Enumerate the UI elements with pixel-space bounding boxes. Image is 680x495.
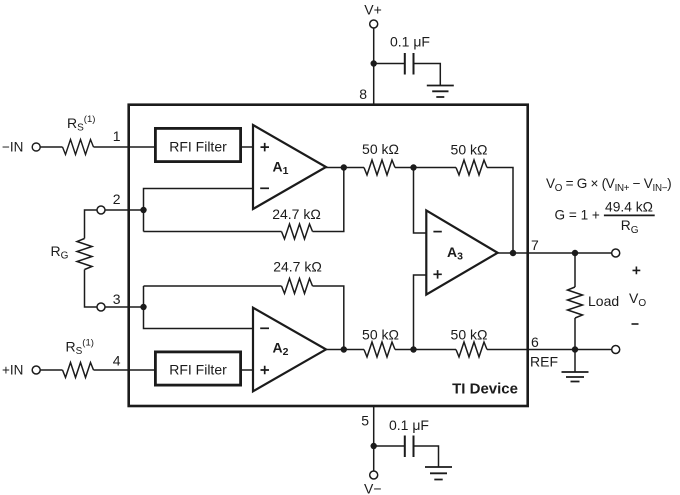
svg-text:+IN: +IN: [2, 363, 23, 378]
op-amp A3: [426, 210, 497, 294]
junction V+ cap: [371, 60, 377, 66]
A1 minus sign: [260, 187, 269, 189]
node A1 out: [341, 164, 347, 170]
svg-text:RFI Filter: RFI Filter: [169, 362, 227, 378]
wire to bottom mid node: [395, 349, 456, 351]
equation fraction bar: [604, 214, 655, 216]
resistor RS2 (Rs bottom): [63, 363, 94, 378]
wire C1 to ground: [414, 64, 441, 86]
node A2 out: [341, 346, 347, 352]
wire A3 plus branch: [414, 275, 427, 350]
terminal VO- / REF: [612, 346, 620, 354]
wire 50k top-right to A3 out column: [487, 168, 513, 254]
A1 plus sign: [261, 143, 270, 152]
wire A1 output to node: [326, 167, 344, 169]
wire V- to C2: [374, 445, 405, 447]
TI Device box U1: [129, 105, 528, 406]
wire 24.7k bottom row: [144, 285, 282, 287]
wire RG to pin3 circle: [85, 270, 98, 308]
wire pin 6 REF row: [487, 349, 612, 351]
svg-text:RFI Filter: RFI Filter: [169, 138, 227, 154]
wire RS2 to pin 4 / RFI filter: [94, 369, 156, 371]
svg-text:0.1 μF: 0.1 μF: [390, 34, 430, 50]
wire top row A1out to 50k: [344, 167, 364, 169]
minus sign output: [632, 323, 639, 325]
ground GND3: [562, 372, 589, 382]
terminal VO+: [612, 249, 620, 257]
wire pin2 circle to RG: [85, 210, 98, 239]
resistor R24a 24.7 kOhm (top): [282, 224, 313, 239]
junction top mid: [410, 164, 416, 170]
wire A2 minus feedback left: [144, 286, 254, 329]
junction pin2: [140, 207, 146, 213]
resistor R24b 24.7 kOhm (bottom): [282, 279, 313, 294]
pin 8 column: terminal V+: [370, 20, 378, 28]
plus sign output: [633, 267, 641, 275]
wire load top: [574, 253, 576, 287]
junction A3 out / feedback: [510, 250, 516, 256]
wire RFI2 to A2 +: [242, 369, 253, 371]
pin 5 column: wire to V-: [373, 406, 375, 471]
wire A1 minus feedback left: [144, 189, 254, 232]
wire bottom row A2out to 50k: [344, 349, 364, 351]
svg-text:50 kΩ: 50 kΩ: [362, 327, 399, 343]
svg-text:6: 6: [531, 334, 539, 350]
wire V+ to C1: [374, 63, 405, 65]
wire RS1 to pin 1 / RFI filter: [94, 146, 156, 148]
wire C2 to ground: [414, 446, 439, 467]
op-amp A1: [253, 125, 326, 209]
resistor RG: [77, 239, 92, 270]
junction load top: [572, 250, 578, 256]
svg-text:24.7 kΩ: 24.7 kΩ: [272, 206, 321, 222]
wire load bottom: [574, 318, 576, 350]
svg-text:50 kΩ: 50 kΩ: [451, 142, 488, 158]
svg-text:5: 5: [361, 413, 369, 429]
wire 24.7k top row: [144, 231, 282, 233]
resistor R50a 50 kOhm top-left: [364, 160, 395, 175]
resistor R50b 50 kOhm top-right: [456, 160, 487, 175]
svg-text:Load: Load: [588, 293, 619, 309]
terminal -IN: [32, 143, 40, 151]
capacitor C1 0.1 uF: [405, 53, 414, 75]
svg-text:8: 8: [359, 86, 367, 102]
wire A3 output to pin 7: [498, 252, 612, 254]
svg-text:1: 1: [113, 128, 121, 144]
svg-text:49.4 kΩ: 49.4 kΩ: [605, 200, 653, 215]
wire pin3 to feedback node: [105, 306, 144, 308]
capacitor C2 0.1 uF: [405, 436, 414, 458]
wire V+ down to pin 8: [373, 28, 375, 104]
resistor Load: [568, 287, 583, 318]
svg-text:7: 7: [531, 237, 539, 253]
pin 2 terminal circle: [97, 206, 105, 214]
svg-text:V+: V+: [364, 1, 382, 17]
svg-text:3: 3: [113, 291, 121, 307]
wire pin2 to feedback node: [105, 209, 144, 211]
A3 plus sign: [433, 270, 441, 279]
resistor R50d 50 kOhm bottom-right: [456, 342, 487, 357]
svg-text:24.7 kΩ: 24.7 kΩ: [273, 259, 322, 275]
resistor RS1 (Rs top): [63, 140, 94, 155]
RFI Filter block FL2: [155, 352, 240, 385]
ground GND2: [425, 467, 452, 480]
svg-text:4: 4: [113, 353, 121, 369]
svg-text:TI Device: TI Device: [452, 381, 518, 398]
resistor R50c 50 kOhm bottom-left: [364, 342, 395, 357]
junction V- cap: [371, 443, 377, 449]
wire to top mid node: [395, 167, 456, 169]
terminal +IN: [32, 366, 40, 374]
wire +IN to RS2: [40, 369, 62, 371]
wire A3 minus branch: [414, 168, 427, 234]
svg-text:−IN: −IN: [2, 139, 23, 154]
svg-text:V−: V−: [364, 481, 382, 495]
A2 minus sign: [260, 327, 269, 329]
wire A2 output to node: [326, 349, 344, 351]
svg-text:50 kΩ: 50 kΩ: [362, 141, 399, 157]
svg-text:G = 1 +: G = 1 +: [555, 208, 600, 223]
RFI Filter block FL1: [155, 128, 240, 161]
wire REF ground: [574, 350, 576, 373]
junction pin3: [140, 304, 146, 310]
svg-text:2: 2: [113, 191, 121, 207]
wire RFI1 to A1 +: [242, 146, 253, 148]
ground GND1: [427, 86, 454, 98]
terminal V-: [370, 471, 378, 479]
svg-text:0.1 μF: 0.1 μF: [389, 417, 429, 433]
A2 plus sign: [261, 366, 270, 375]
junction bottom mid: [410, 346, 416, 352]
op-amp A2: [253, 308, 326, 392]
wire 24.7k bottom to A2 out node: [313, 286, 344, 350]
junction load bottom / REF: [572, 346, 578, 352]
pin 3 terminal circle: [97, 303, 105, 311]
A3 minus sign: [433, 231, 441, 233]
svg-text:50 kΩ: 50 kΩ: [451, 327, 488, 343]
svg-text:REF: REF: [530, 354, 558, 370]
wire 24.7k top to A1 out node: [313, 168, 344, 232]
wire -IN to RS1: [40, 146, 62, 148]
